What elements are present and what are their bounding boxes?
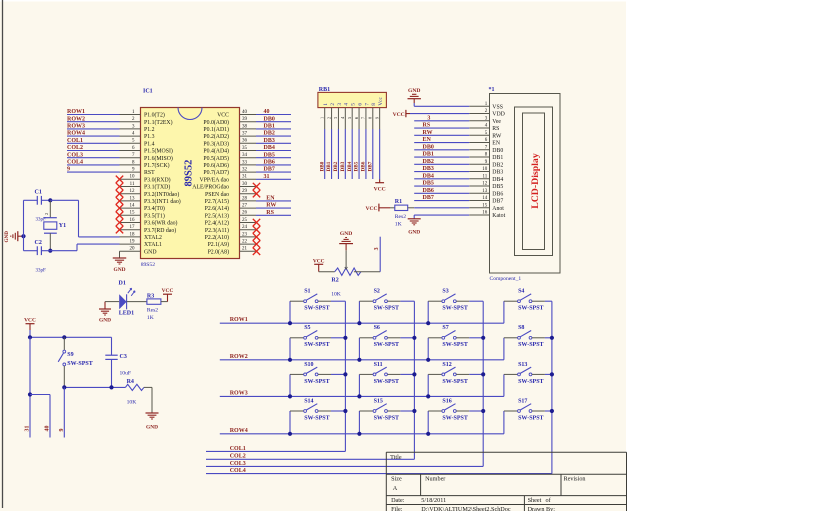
- svg-text:SW-SPST: SW-SPST: [374, 342, 399, 348]
- svg-text:9: 9: [59, 429, 65, 432]
- svg-text:11: 11: [482, 174, 487, 179]
- svg-text:File:: File:: [391, 506, 403, 511]
- svg-text:S12: S12: [442, 362, 451, 368]
- IC1 pin 5 (P1.4): [120, 142, 141, 144]
- IC1 pin 18 (XTAL2): [120, 236, 141, 238]
- svg-text:P3.1(TXD): P3.1(TXD): [144, 184, 170, 191]
- svg-text:PSEN dao: PSEN dao: [205, 192, 229, 198]
- wire net COL3 to IC1 pin 7: [67, 157, 120, 159]
- svg-text:5: 5: [347, 117, 352, 119]
- svg-text:38: 38: [242, 124, 248, 129]
- junction S11 column: [412, 372, 416, 376]
- svg-text:13: 13: [482, 189, 488, 194]
- svg-text:C2: C2: [35, 240, 42, 246]
- IC1 pin 15 (P3.5(T1)): [120, 214, 141, 216]
- IC1 notch arc: [178, 108, 202, 120]
- svg-text:17: 17: [130, 225, 136, 230]
- LCD pin 14 (DB7): [469, 200, 489, 202]
- wire net RW from IC1 pin 27: [256, 207, 291, 209]
- svg-text:DB2: DB2: [264, 131, 275, 137]
- svg-text:P0.0(AD0): P0.0(AD0): [203, 119, 229, 126]
- wire R4 to ground: [144, 386, 152, 388]
- LCD pin 12 (DB5): [469, 185, 489, 187]
- switch S6: [358, 338, 360, 360]
- title block: [386, 451, 626, 453]
- svg-text:2: 2: [326, 117, 331, 119]
- svg-text:RW: RW: [492, 133, 502, 139]
- svg-text:Vcc: Vcc: [378, 97, 384, 106]
- LCD pin 9 (DB2): [469, 163, 489, 165]
- ground (LED): [104, 302, 106, 309]
- svg-text:P3.3(INT1 dao): P3.3(INT1 dao): [144, 198, 181, 205]
- junction S6 row: [357, 358, 361, 362]
- svg-text:DB0: DB0: [319, 161, 325, 171]
- svg-text:P3.2(INT0dao): P3.2(INT0dao): [144, 191, 179, 198]
- svg-text:10: 10: [482, 167, 488, 172]
- LCD pin 4 (RS): [469, 127, 489, 129]
- IC1 pin 37 (P0.2(AD2)): [240, 135, 257, 137]
- no-ERC mark pin 22: [253, 240, 260, 247]
- svg-text:VCC: VCC: [365, 206, 377, 212]
- svg-text:VSS: VSS: [492, 104, 503, 110]
- svg-text:15: 15: [482, 203, 488, 208]
- IC1 pin 33 (P0.6(AD6)): [240, 164, 257, 166]
- IC1 pin 6 (P1.5(MOSI)): [120, 150, 141, 152]
- switch S4: [503, 301, 505, 323]
- IC1 pin 21 (P2.0(A8)): [240, 250, 257, 252]
- svg-text:COL3: COL3: [230, 461, 246, 467]
- node A top: [48, 198, 52, 202]
- wire net DB1 from IC1 pin 38: [256, 128, 291, 130]
- no-ERC mark pin 13: [116, 197, 123, 204]
- wire gnd to crystal node: [18, 235, 24, 237]
- svg-text:EN: EN: [423, 137, 432, 143]
- svg-text:P2.4(A12): P2.4(A12): [205, 220, 229, 227]
- IC1 pin 36 (P0.3(AD3)): [240, 142, 257, 144]
- svg-text:SW-SPST: SW-SPST: [442, 306, 467, 312]
- switch S9: [63, 337, 65, 350]
- svg-text:S5: S5: [304, 325, 310, 331]
- IC1 pin 11 (P3.1(TXD)): [120, 186, 141, 188]
- svg-text:25: 25: [242, 218, 248, 223]
- capacitor C1: [24, 199, 38, 201]
- svg-text:16: 16: [130, 218, 136, 223]
- IC1 pin 30 (ALE/PROGdao): [240, 186, 257, 188]
- IC1 pin 32 (P0.7(AD7)): [240, 171, 257, 173]
- svg-text:P0.2(AD2): P0.2(AD2): [203, 133, 229, 140]
- svg-text:P1.3: P1.3: [144, 134, 155, 140]
- svg-text:VCC: VCC: [217, 113, 229, 119]
- wire crystal to XTAL2: [50, 199, 78, 201]
- svg-text:89S52: 89S52: [184, 160, 195, 187]
- svg-text:DB3: DB3: [340, 161, 346, 171]
- svg-text:COL3: COL3: [67, 152, 83, 158]
- svg-text:31: 31: [264, 174, 270, 180]
- IC1 pin 3 (P1.2): [120, 128, 141, 130]
- svg-text:DB0: DB0: [423, 144, 434, 150]
- svg-text:EN: EN: [492, 141, 501, 147]
- power VCC (R2): [314, 263, 323, 265]
- svg-text:GND: GND: [4, 231, 10, 243]
- svg-text:19: 19: [130, 240, 136, 245]
- svg-text:33: 33: [242, 160, 248, 165]
- wire net DB2 from IC1 pin 37: [256, 135, 291, 137]
- svg-text:7: 7: [364, 103, 370, 106]
- svg-text:29: 29: [242, 189, 248, 194]
- no-ERC mark pin 15: [116, 212, 123, 219]
- power VCC (RB1): [375, 182, 384, 184]
- svg-text:33pF: 33pF: [36, 269, 47, 274]
- svg-text:Component_1: Component_1: [490, 276, 522, 282]
- svg-text:SW-SPST: SW-SPST: [304, 415, 329, 421]
- svg-text:DB6: DB6: [423, 188, 434, 194]
- RB1 pin 8: [372, 108, 374, 129]
- IC1 pin 4 (P1.3): [120, 135, 141, 137]
- svg-text:VCC: VCC: [374, 186, 386, 192]
- svg-text:14: 14: [130, 204, 136, 209]
- junction S3 row: [426, 321, 430, 325]
- switch S12: [427, 374, 429, 396]
- IC1 pin 26 (P2.5(A13)): [240, 214, 257, 216]
- svg-text:26: 26: [242, 211, 248, 216]
- junction S1 row: [288, 321, 292, 325]
- ground (R2 wiper, inverted): [345, 250, 347, 267]
- svg-text:DB2: DB2: [333, 161, 339, 171]
- no-ERC mark pin 16: [116, 219, 123, 226]
- switch S10: [289, 374, 291, 396]
- RB1 pin 9: [379, 108, 381, 129]
- svg-text:P1.0(T2): P1.0(T2): [144, 112, 165, 119]
- junction S8 column: [550, 336, 554, 340]
- svg-text:S14: S14: [304, 398, 313, 404]
- svg-text:8: 8: [371, 103, 377, 106]
- wire COL1 column vertical: [344, 301, 346, 451]
- IC1 pin 14 (P3.4(T0)): [120, 207, 141, 209]
- junction S14 column: [343, 409, 347, 413]
- svg-text:12: 12: [130, 189, 136, 194]
- ground (VSS, inverted): [413, 99, 415, 103]
- svg-text:COL4: COL4: [67, 160, 83, 166]
- svg-text:DB7: DB7: [367, 161, 373, 171]
- svg-text:1K: 1K: [147, 315, 154, 321]
- svg-text:S3: S3: [442, 289, 448, 295]
- svg-text:89S52: 89S52: [141, 262, 156, 268]
- svg-text:R1: R1: [395, 199, 402, 205]
- svg-text:ROW1: ROW1: [67, 109, 85, 115]
- IC1 pin 27 (P2.6(A14)): [240, 207, 257, 209]
- svg-text:40: 40: [242, 110, 248, 115]
- svg-text:P3.5(T1): P3.5(T1): [144, 212, 165, 219]
- ground (Katot): [408, 218, 421, 220]
- svg-text:DB4: DB4: [264, 145, 275, 151]
- IC1 pin 34 (P0.5(AD5)): [240, 157, 257, 159]
- svg-text:P3.6(WR dao): P3.6(WR dao): [144, 220, 178, 227]
- svg-text:34: 34: [242, 153, 248, 158]
- RB1 pin 4: [344, 108, 346, 129]
- svg-text:S6: S6: [374, 325, 380, 331]
- svg-text:5: 5: [351, 103, 357, 106]
- LCD bezel: [515, 107, 553, 256]
- LCD pin 7 (DB0): [469, 149, 489, 151]
- svg-text:SW-SPST: SW-SPST: [442, 379, 467, 385]
- svg-text:DB7: DB7: [423, 195, 434, 201]
- svg-text:27: 27: [242, 204, 248, 209]
- LCD pin 6 (EN): [469, 142, 489, 144]
- svg-text:SW-SPST: SW-SPST: [304, 306, 329, 312]
- svg-text:S4: S4: [518, 289, 524, 295]
- LCD pin 8 (DB1): [469, 156, 489, 158]
- svg-text:SW-SPST: SW-SPST: [304, 342, 329, 348]
- svg-text:1K: 1K: [395, 221, 402, 227]
- LCD pin 1 (VSS): [469, 105, 489, 107]
- LED D1: [119, 294, 126, 309]
- svg-text:DB1: DB1: [492, 155, 503, 161]
- svg-text:S2: S2: [374, 289, 380, 295]
- power VCC (reset): [26, 323, 35, 325]
- svg-text:P3.7(RD dao): P3.7(RD dao): [144, 227, 176, 234]
- wire LED to R3: [127, 301, 147, 303]
- svg-text:S7: S7: [442, 325, 448, 331]
- svg-text:VCC: VCC: [162, 288, 174, 294]
- IC1 pin 1 (P1.0(T2)): [120, 114, 141, 116]
- svg-text:RS: RS: [423, 123, 431, 129]
- svg-text:DB3: DB3: [423, 166, 434, 172]
- svg-text:COL2: COL2: [230, 454, 246, 460]
- no-ERC mark pin 24: [253, 226, 260, 233]
- svg-text:Katot: Katot: [492, 213, 505, 219]
- switch S2: [358, 301, 360, 323]
- resistor R4: [125, 384, 144, 390]
- wire net DB7 from RB1: [372, 129, 374, 179]
- svg-text:14: 14: [482, 196, 488, 201]
- junction S10 row: [288, 394, 292, 398]
- svg-text:Vee: Vee: [492, 119, 501, 125]
- wire COL2 line: [206, 458, 414, 460]
- wire net ROW1 to IC1 pin 1: [67, 114, 120, 116]
- wire net DB0 to LCD pin 7: [414, 149, 469, 151]
- IC1 pin 19 (XTAL1): [120, 243, 141, 245]
- wire net ROW4 to IC1 pin 4: [67, 135, 120, 137]
- wire net RS from IC1 pin 26: [256, 214, 291, 216]
- svg-text:3: 3: [333, 117, 338, 119]
- junction S12 row: [426, 394, 430, 398]
- junction S13 column: [550, 372, 554, 376]
- switch S14: [289, 411, 291, 434]
- svg-text:18: 18: [130, 232, 136, 237]
- svg-text:S16: S16: [442, 398, 451, 404]
- svg-text:P2.0(A8): P2.0(A8): [208, 248, 229, 255]
- svg-text:Size: Size: [391, 475, 402, 482]
- svg-text:4: 4: [344, 103, 350, 106]
- LCD pin 15 (Anot): [469, 207, 489, 209]
- svg-text:DB1: DB1: [423, 152, 434, 158]
- svg-text:8: 8: [368, 117, 373, 119]
- wire COL3 line: [206, 465, 483, 467]
- wire net 9: [63, 387, 65, 437]
- wire crystal to XTAL1: [50, 250, 77, 252]
- svg-text:S1: S1: [304, 289, 310, 295]
- switch S8: [503, 338, 505, 360]
- svg-text:Drawn By:: Drawn By:: [528, 506, 556, 511]
- svg-text:P0.4(AD4): P0.4(AD4): [203, 148, 229, 155]
- wire ROW3 line: [220, 395, 504, 397]
- svg-text:S11: S11: [374, 362, 383, 368]
- svg-text:COL1: COL1: [67, 138, 83, 144]
- wire R3 to VCC: [161, 301, 168, 303]
- IC1 pin 12 (P3.2(INT0dao)): [120, 193, 141, 195]
- svg-text:10uF: 10uF: [120, 371, 132, 377]
- ground (R4): [146, 412, 159, 414]
- svg-text:DB4: DB4: [423, 173, 434, 179]
- resistor R1: [390, 207, 395, 209]
- wire net EN to LCD pin 6: [414, 142, 469, 144]
- switch S17: [503, 411, 505, 434]
- svg-text:P0.1(AD1): P0.1(AD1): [203, 126, 229, 133]
- svg-text:S13: S13: [518, 362, 527, 368]
- svg-text:6: 6: [357, 103, 363, 106]
- switch S3: [427, 301, 429, 323]
- svg-text:P2.6(A14): P2.6(A14): [205, 205, 229, 212]
- IC1 pin 17 (P3.7(RD dao)): [120, 229, 141, 231]
- svg-text:DB2: DB2: [423, 159, 434, 165]
- ground (IC1 pin 20): [113, 257, 127, 259]
- no-ERC mark pin 23: [253, 233, 260, 240]
- svg-text:SW-SPST: SW-SPST: [518, 379, 543, 385]
- svg-text:S10: S10: [304, 362, 313, 368]
- IC1 pin 22 (P2.1(A9)): [240, 243, 257, 245]
- junction S15 row: [357, 432, 361, 436]
- svg-text:10K: 10K: [127, 400, 137, 406]
- svg-text:37: 37: [242, 132, 248, 137]
- svg-text:28: 28: [242, 196, 248, 201]
- svg-text:P1.2: P1.2: [144, 127, 155, 133]
- svg-text:GND: GND: [144, 249, 157, 255]
- svg-text:24: 24: [242, 225, 248, 230]
- wire COL4 column vertical: [551, 301, 553, 473]
- no-ERC mark pin 30: [253, 183, 260, 190]
- RB1 pin 6: [358, 108, 360, 129]
- wire net COL1 to IC1 pin 5: [67, 142, 120, 144]
- no-ERC mark pin 10: [116, 176, 123, 183]
- svg-text:DB5: DB5: [492, 184, 503, 190]
- svg-text:SW-SPST: SW-SPST: [518, 306, 543, 312]
- svg-text:SW-SPST: SW-SPST: [442, 342, 467, 348]
- svg-text:20: 20: [130, 247, 136, 252]
- svg-text:Res2: Res2: [147, 307, 158, 313]
- IC1 pin 29 (PSEN dao): [240, 193, 257, 195]
- wire net DB4 from RB1: [351, 129, 353, 179]
- wire net COL2 to IC1 pin 6: [67, 150, 120, 152]
- svg-text:P0.6(AD6): P0.6(AD6): [203, 162, 229, 169]
- LCD pin 3 (Vee): [469, 120, 489, 122]
- svg-text:GND: GND: [146, 425, 158, 431]
- RB1 pin 3: [337, 108, 339, 129]
- no-ERC mark pin 21: [253, 248, 260, 255]
- svg-text:21: 21: [242, 247, 248, 252]
- svg-text:SW-SPST: SW-SPST: [518, 415, 543, 421]
- svg-text:Title: Title: [390, 454, 402, 461]
- svg-text:*1: *1: [489, 87, 495, 93]
- LCD pin 13 (DB6): [469, 192, 489, 194]
- svg-text:LCD-Display: LCD-Display: [530, 153, 541, 209]
- IC1 pin 40 (VCC): [240, 114, 257, 116]
- wire net DB3 from IC1 pin 36: [256, 142, 291, 144]
- LCD pin 10 (DB3): [469, 171, 489, 173]
- svg-text:2: 2: [44, 213, 49, 215]
- IC1 pin 39 (P0.0(AD0)): [240, 121, 257, 123]
- svg-text:39: 39: [242, 117, 248, 122]
- svg-text:S8: S8: [518, 325, 524, 331]
- IC1 pin 8 (P1.7(SCK)): [120, 164, 141, 166]
- svg-text:9: 9: [67, 167, 70, 173]
- svg-text:SW-SPST: SW-SPST: [67, 361, 92, 367]
- no-ERC mark pin 29: [253, 190, 260, 197]
- no-ERC mark pin 12: [116, 190, 123, 197]
- svg-text:RST: RST: [144, 170, 155, 176]
- junction S5 row: [288, 358, 292, 362]
- svg-text:P2.7(A15): P2.7(A15): [205, 198, 229, 205]
- wire net DB3 to LCD pin 10: [414, 171, 469, 173]
- svg-text:P2.5(A13): P2.5(A13): [205, 212, 229, 219]
- svg-text:32: 32: [242, 168, 248, 173]
- wire net DB7 from IC1 pin 32: [256, 171, 291, 173]
- wire net DB5 from RB1: [358, 129, 360, 179]
- wire net ROW3 to IC1 pin 3: [67, 128, 120, 130]
- wire net DB5 to LCD pin 12: [414, 185, 469, 187]
- LCD pin 5 (RW): [469, 134, 489, 136]
- svg-text:ROW4: ROW4: [67, 131, 85, 137]
- svg-text:SW-SPST: SW-SPST: [304, 379, 329, 385]
- sheet left border: [2, 0, 4, 508]
- svg-text:GND: GND: [408, 88, 420, 94]
- wire COL2 column vertical: [413, 301, 415, 459]
- wire net COL4 to IC1 pin 8: [67, 164, 120, 166]
- svg-text:40: 40: [45, 426, 51, 432]
- wire net DB7 to LCD pin 14: [414, 200, 469, 202]
- svg-text:DB1: DB1: [326, 161, 332, 171]
- svg-text:3: 3: [337, 103, 343, 106]
- wire net 31 from IC1 pin 31: [256, 178, 291, 180]
- junction S14 row: [288, 432, 292, 436]
- svg-text:DB4: DB4: [347, 161, 353, 171]
- svg-text:40: 40: [264, 109, 270, 115]
- svg-text:2: 2: [330, 103, 336, 106]
- svg-text:S9: S9: [67, 352, 73, 358]
- svg-text:31: 31: [242, 175, 248, 180]
- junction S7 column: [481, 336, 485, 340]
- power VCC (LED): [163, 293, 172, 295]
- LCD pin 11 (DB4): [469, 178, 489, 180]
- svg-text:DB1: DB1: [264, 124, 275, 130]
- switch S16: [427, 411, 429, 434]
- svg-text:DB3: DB3: [264, 138, 275, 144]
- svg-text:Number: Number: [425, 475, 445, 482]
- switch S13: [503, 374, 505, 396]
- wire IC1 pin20 to ground: [119, 251, 121, 258]
- svg-text:P1.5(MOSI): P1.5(MOSI): [144, 148, 173, 155]
- svg-text:DB6: DB6: [492, 191, 503, 197]
- svg-text:R4: R4: [127, 379, 134, 385]
- junction S12 column: [481, 372, 485, 376]
- svg-text:DB3: DB3: [492, 170, 503, 176]
- LCD pin 16 (Katot): [469, 214, 489, 216]
- svg-text:P2.2(A10): P2.2(A10): [205, 234, 229, 241]
- switch S5: [289, 338, 291, 360]
- svg-text:P1.6(MISO): P1.6(MISO): [144, 155, 173, 162]
- svg-text:C1: C1: [35, 190, 42, 196]
- svg-text:Sheet: Sheet: [528, 497, 542, 504]
- svg-text:S17: S17: [518, 398, 527, 404]
